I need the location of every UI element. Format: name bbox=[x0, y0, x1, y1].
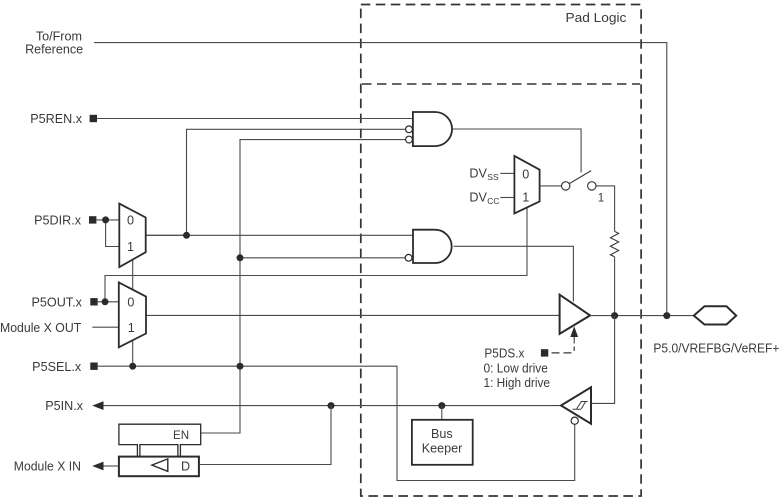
svg-text:D: D bbox=[181, 459, 190, 473]
mux M1 select wire bbox=[132, 260, 134, 290]
Pad Logic outer dashed box bbox=[361, 5, 641, 497]
wire bus keeper stub bbox=[441, 406, 443, 420]
svg-text:DV: DV bbox=[469, 167, 487, 181]
P5REN.x terminal square bbox=[90, 115, 97, 122]
mux M3 (pull resistor supply select) bbox=[514, 156, 539, 214]
AND gate U1 (inputs P5REN, /DIR, /SEL) bbox=[413, 112, 452, 146]
svg-text:Keeper: Keeper bbox=[422, 442, 463, 456]
junction P5DIR branch bbox=[102, 216, 109, 223]
wire P5DIR.x branch to mux M1 input 1 bbox=[106, 220, 120, 247]
latch D box bbox=[119, 457, 199, 477]
junction P5IN / latch D bbox=[328, 402, 335, 409]
svg-text:EN: EN bbox=[173, 429, 189, 442]
junction P5OUT branch bbox=[102, 298, 109, 305]
AND gate U2 bbox=[413, 230, 452, 263]
svg-text:P5SEL.x: P5SEL.x bbox=[32, 360, 82, 374]
wire P5SEL.x to input buffer enable bbox=[98, 366, 575, 480]
junction pad node / resistor bbox=[611, 312, 618, 319]
mux M1 (P5DIR select) bbox=[119, 204, 145, 268]
svg-text:1: 1 bbox=[127, 240, 134, 254]
wire switch to resistor bbox=[596, 186, 615, 232]
svg-text:Pad Logic: Pad Logic bbox=[566, 11, 627, 25]
wire mux M2 output to driver bbox=[146, 314, 560, 316]
wire Module X OUT to mux M2 input 1 bbox=[92, 326, 119, 328]
wire DVcc to mux M3 input 1 bbox=[500, 197, 514, 199]
wire input buffer input from pad node bbox=[591, 316, 615, 404]
svg-text:1: 1 bbox=[598, 191, 604, 204]
svg-text:0: Low drive: 0: Low drive bbox=[484, 361, 548, 375]
wire P5OUT.x to mux M2 input 0 bbox=[98, 301, 119, 303]
wire P5DIR mux output to NAND U2 input 1 bbox=[146, 234, 413, 236]
output driver U3 bbox=[560, 295, 591, 334]
wire To/From Reference to pad node bbox=[94, 43, 667, 316]
mux M2 select wire bbox=[132, 340, 134, 366]
NAND U2 output wire to driver enable bbox=[454, 246, 574, 301]
svg-text:DV: DV bbox=[469, 191, 487, 205]
svg-text:1: 1 bbox=[522, 191, 529, 205]
junction node A bbox=[183, 232, 190, 239]
junction P5SEL / M2 select bbox=[129, 363, 136, 370]
svg-text:1: 1 bbox=[128, 321, 135, 335]
junction node B bbox=[237, 254, 244, 261]
svg-text:0: 0 bbox=[127, 214, 134, 228]
arrow P5IN.x bbox=[92, 401, 103, 410]
wire node A (P5DIR mux out) up to U1 input 2 bbox=[187, 129, 406, 235]
U4 enable bubble bbox=[571, 417, 578, 424]
NAND U1 output wire to switch control bbox=[453, 129, 581, 173]
P5DS drive strength arrow bbox=[570, 326, 578, 337]
wire latch D input bbox=[199, 406, 331, 465]
Bus Keeper box bbox=[412, 420, 473, 465]
latch clock triangle bbox=[152, 459, 168, 471]
mux M2 (P5OUT select) bbox=[119, 282, 146, 347]
wire DVss to mux M3 input 0 bbox=[500, 172, 514, 174]
inner dashed box top edge bbox=[362, 83, 640, 85]
wire P5IN from input buffer bbox=[104, 405, 562, 407]
svg-text:P5DIR.x: P5DIR.x bbox=[34, 214, 82, 228]
wire mux M3 output to switch bbox=[540, 185, 562, 187]
wire Module X IN from latch bbox=[104, 465, 119, 467]
svg-text:1: High drive: 1: High drive bbox=[484, 376, 551, 390]
wire node B to U2 lower input bbox=[240, 257, 405, 259]
wire P5SEL vertical to U1 input 3 and latch EN bbox=[201, 140, 406, 433]
wire driver output to pad bbox=[590, 315, 694, 317]
svg-text:P5OUT.x: P5OUT.x bbox=[32, 295, 83, 309]
svg-text:CC: CC bbox=[487, 196, 499, 206]
svg-text:To/From: To/From bbox=[36, 29, 82, 43]
wire P5OUT branch to pull mux M3 select bbox=[105, 208, 527, 302]
wire mux M1 output bbox=[146, 234, 187, 236]
svg-text:0: 0 bbox=[522, 167, 529, 181]
arrow Module X IN bbox=[92, 462, 103, 471]
latch EN box bbox=[119, 424, 201, 456]
svg-text:Module X OUT: Module X OUT bbox=[0, 321, 81, 335]
switch contact right bbox=[588, 182, 596, 190]
wire resistor to pad node bbox=[614, 257, 616, 316]
svg-text:Bus: Bus bbox=[431, 427, 453, 441]
P5DS.x terminal square bbox=[541, 349, 548, 356]
svg-text:P5REN.x: P5REN.x bbox=[30, 112, 82, 126]
junction P5SEL / NAND-EN vertical bbox=[237, 363, 244, 370]
U2 input bubble bbox=[405, 254, 412, 261]
wire P5DIR.x to mux M1 input 0 bbox=[96, 219, 119, 221]
pad hexagon P5.0 bbox=[694, 306, 736, 324]
svg-text:0: 0 bbox=[127, 296, 134, 310]
hysteresis symbol bbox=[573, 402, 588, 410]
svg-text:P5DS.x: P5DS.x bbox=[484, 346, 525, 360]
svg-text:P5.0/VREFBG/VeREF+: P5.0/VREFBG/VeREF+ bbox=[653, 342, 779, 356]
input Schmitt buffer U4 bbox=[561, 387, 591, 423]
switch arm bbox=[569, 171, 591, 184]
P5SEL.x terminal square bbox=[90, 363, 97, 370]
wire P5REN.x to NAND U1 input 1 bbox=[97, 118, 413, 120]
P5DIR.x terminal square bbox=[89, 216, 96, 223]
P5OUT.x terminal square bbox=[90, 298, 97, 305]
junction pad node / reference bbox=[663, 312, 670, 319]
svg-text:Module X IN: Module X IN bbox=[14, 460, 81, 474]
switch contact left bbox=[562, 182, 570, 190]
U1 input bubble 2 bbox=[406, 126, 413, 133]
svg-text:SS: SS bbox=[487, 172, 499, 182]
resistor R1 bbox=[610, 231, 618, 256]
P5DS dashed connector bbox=[573, 337, 575, 344]
svg-text:P5IN.x: P5IN.x bbox=[45, 399, 83, 413]
svg-text:Reference: Reference bbox=[25, 43, 83, 57]
U1 input bubble 3 bbox=[406, 136, 413, 143]
junction P5IN / bus keeper bbox=[438, 402, 445, 409]
